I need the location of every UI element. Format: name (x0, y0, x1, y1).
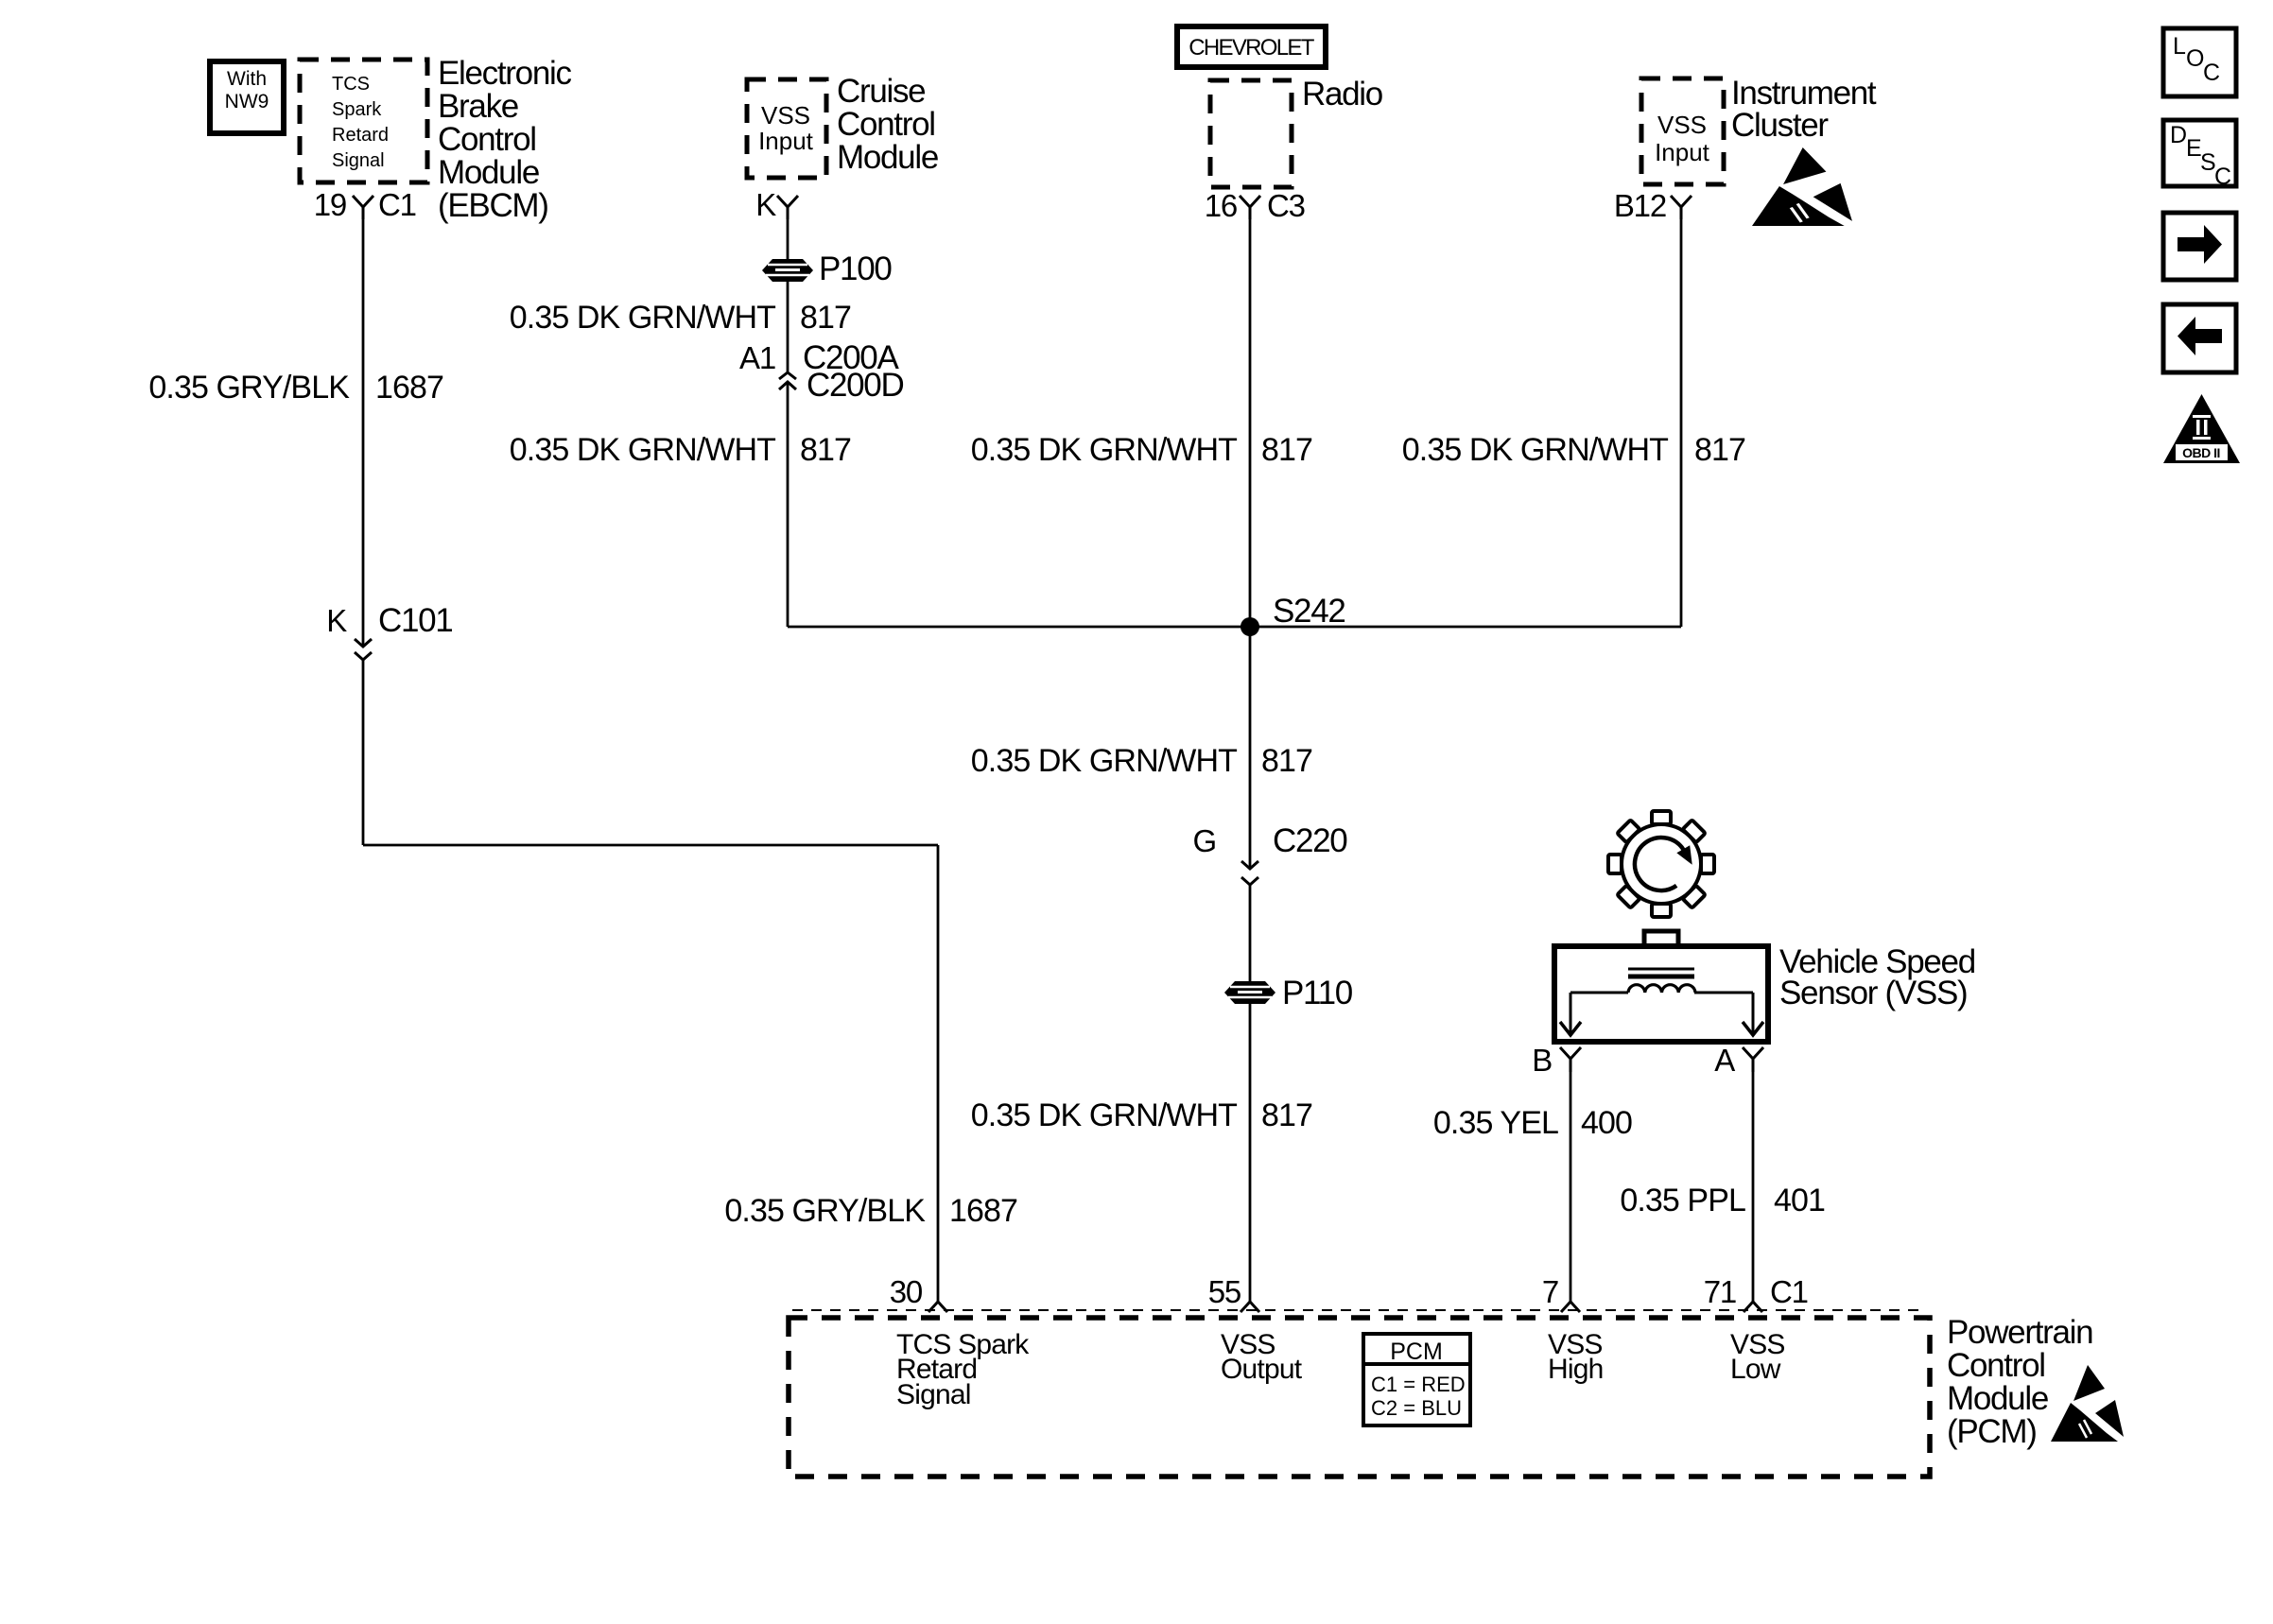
svg-text:0.35 GRY/BLK: 0.35 GRY/BLK (148, 370, 350, 406)
svg-text:With: With (227, 68, 267, 90)
svg-text:C1 = RED: C1 = RED (1371, 1373, 1466, 1396)
svg-text:0.35 DK GRN/WHT: 0.35 DK GRN/WHT (971, 1097, 1237, 1133)
svg-text:VSS: VSS (1657, 111, 1707, 139)
svg-text:817: 817 (1261, 432, 1312, 468)
svg-text:S242: S242 (1273, 593, 1345, 630)
svg-text:Output: Output (1221, 1354, 1303, 1385)
svg-text:A1: A1 (739, 340, 775, 375)
svg-text:C200D: C200D (807, 367, 903, 404)
svg-text:Low: Low (1730, 1354, 1781, 1385)
svg-text:817: 817 (800, 300, 851, 336)
svg-text:Electronic: Electronic (438, 55, 571, 92)
svg-text:0.35 DK GRN/WHT: 0.35 DK GRN/WHT (510, 432, 775, 468)
svg-text:817: 817 (1261, 1097, 1312, 1133)
svg-text:Control: Control (438, 121, 536, 158)
svg-text:71: 71 (1704, 1274, 1736, 1309)
svg-text:G: G (1193, 823, 1216, 858)
svg-text:1687: 1687 (375, 370, 443, 406)
svg-text:D: D (2170, 122, 2187, 148)
svg-text:0.35 GRY/BLK: 0.35 GRY/BLK (724, 1193, 926, 1229)
svg-text:PCM: PCM (1390, 1339, 1443, 1365)
svg-text:Spark: Spark (332, 99, 382, 120)
svg-text:K: K (755, 187, 776, 222)
svg-text:P100: P100 (819, 251, 892, 287)
svg-text:C: C (2203, 60, 2220, 86)
svg-text:CHEVROLET: CHEVROLET (1189, 35, 1314, 60)
svg-text:0.35 DK GRN/WHT: 0.35 DK GRN/WHT (510, 300, 775, 336)
svg-text:817: 817 (1261, 743, 1312, 779)
svg-text:Powertrain: Powertrain (1947, 1314, 2092, 1351)
svg-text:C101: C101 (378, 602, 452, 639)
svg-text:C3: C3 (1267, 188, 1305, 223)
svg-text:Retard: Retard (332, 125, 389, 146)
svg-text:Sensor (VSS): Sensor (VSS) (1779, 975, 1967, 1011)
svg-text:(PCM): (PCM) (1947, 1413, 2037, 1450)
svg-text:C1: C1 (378, 187, 416, 222)
svg-text:30: 30 (890, 1274, 923, 1309)
svg-text:P110: P110 (1282, 975, 1353, 1011)
svg-text:OBD II: OBD II (2182, 445, 2220, 460)
svg-text:817: 817 (800, 432, 851, 468)
svg-text:(EBCM): (EBCM) (438, 187, 548, 224)
svg-text:C220: C220 (1273, 822, 1347, 859)
svg-text:C2 = BLU: C2 = BLU (1371, 1396, 1462, 1420)
svg-text:Brake: Brake (438, 88, 518, 125)
svg-text:0.35 DK GRN/WHT: 0.35 DK GRN/WHT (971, 432, 1237, 468)
svg-text:1687: 1687 (949, 1193, 1017, 1229)
svg-text:B12: B12 (1614, 188, 1666, 223)
svg-text:0.35 YEL: 0.35 YEL (1433, 1105, 1558, 1141)
svg-text:Signal: Signal (896, 1379, 971, 1410)
svg-text:NW9: NW9 (225, 91, 269, 112)
svg-text:Input: Input (1655, 138, 1710, 166)
svg-text:400: 400 (1581, 1105, 1632, 1141)
svg-text:401: 401 (1774, 1183, 1825, 1218)
svg-text:Module: Module (1947, 1380, 2048, 1417)
svg-text:0.35 DK GRN/WHT: 0.35 DK GRN/WHT (1402, 432, 1668, 468)
svg-text:Cluster: Cluster (1731, 107, 1829, 144)
svg-text:Radio: Radio (1302, 76, 1382, 112)
svg-text:7: 7 (1542, 1274, 1558, 1309)
svg-text:817: 817 (1694, 432, 1745, 468)
svg-text:VSS: VSS (761, 101, 810, 130)
svg-text:55: 55 (1208, 1274, 1241, 1309)
svg-text:Module: Module (438, 154, 539, 191)
svg-text:16: 16 (1205, 188, 1237, 223)
svg-text:O: O (2186, 45, 2204, 72)
svg-text:L: L (2173, 33, 2186, 60)
svg-text:C: C (2214, 164, 2231, 190)
svg-text:High: High (1548, 1354, 1604, 1385)
svg-text:K: K (326, 603, 347, 638)
svg-text:C1: C1 (1770, 1274, 1808, 1309)
svg-text:0.35 DK GRN/WHT: 0.35 DK GRN/WHT (971, 743, 1237, 779)
svg-text:Module: Module (837, 139, 938, 176)
svg-text:B: B (1532, 1043, 1552, 1078)
svg-text:Control: Control (837, 106, 935, 143)
svg-text:TCS: TCS (332, 74, 370, 95)
svg-text:19: 19 (314, 187, 346, 222)
svg-text:Input: Input (758, 127, 814, 155)
svg-text:Control: Control (1947, 1347, 2045, 1384)
svg-text:0.35 PPL: 0.35 PPL (1620, 1183, 1745, 1218)
svg-text:A: A (1714, 1043, 1735, 1078)
svg-text:Signal: Signal (332, 150, 385, 171)
svg-text:Cruise: Cruise (837, 73, 925, 110)
